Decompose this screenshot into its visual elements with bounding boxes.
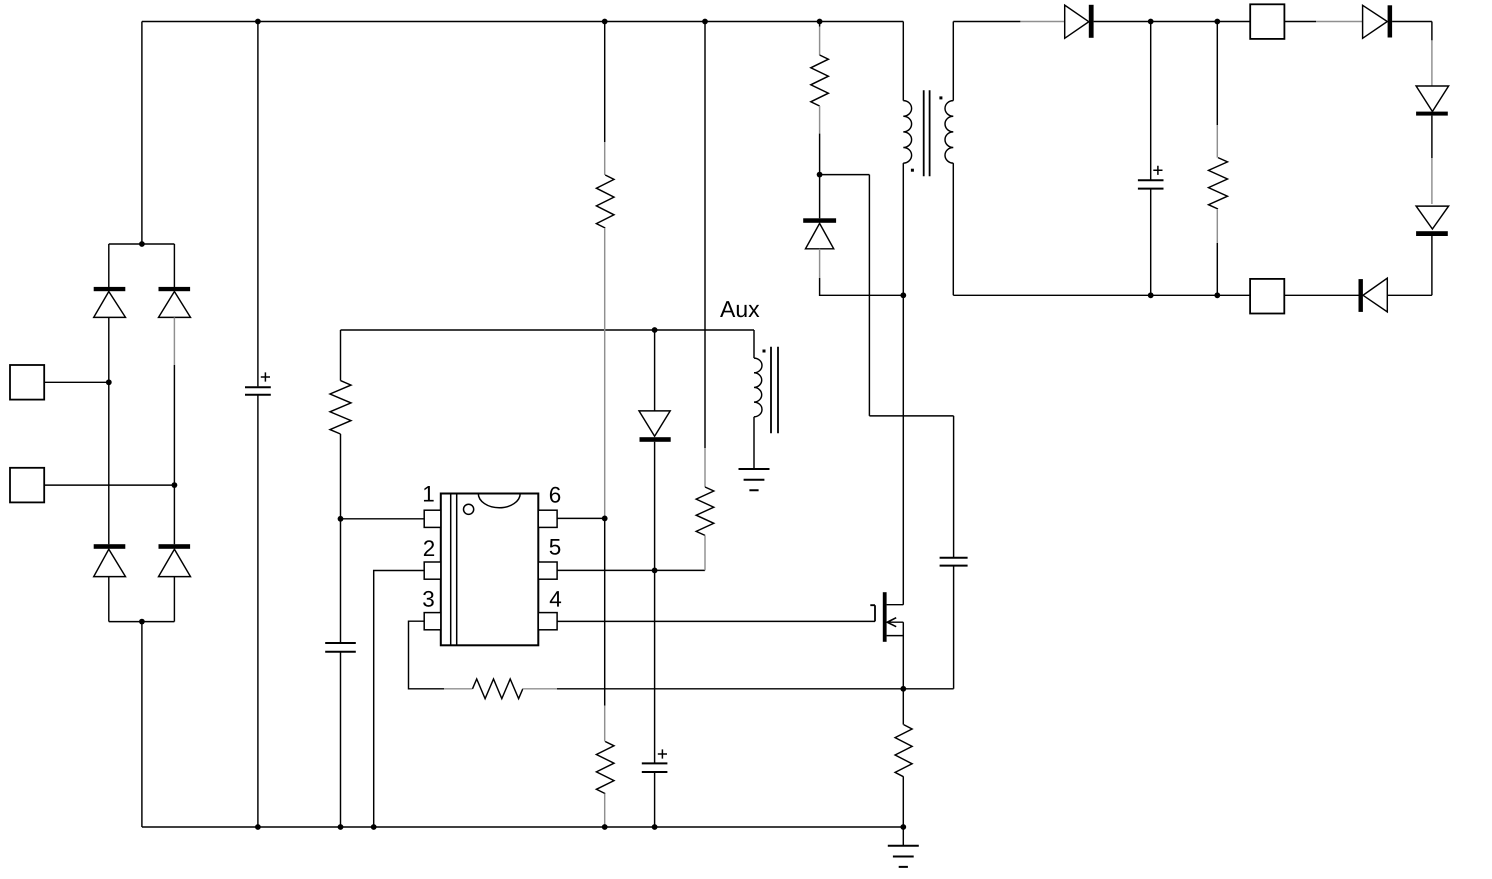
pin number 1 xyxy=(424,486,434,501)
wire R3 to MOSFET source node xyxy=(557,688,903,690)
wire C5 bottom lead xyxy=(1150,189,1152,296)
wire R6 from top rail xyxy=(704,22,706,449)
U1 pin 5 box xyxy=(538,562,557,579)
wire clamp link to snubber cap xyxy=(820,175,954,416)
wire R8 top lead xyxy=(902,689,904,725)
wire R3 left lead (gray) xyxy=(444,688,473,690)
wire R9 top lead xyxy=(1216,22,1218,126)
wire D5 cathode to output node xyxy=(1094,21,1251,23)
resistor R7 (clamp) xyxy=(811,55,829,106)
wire IC pin2 to ground rail xyxy=(374,571,425,828)
op-amp U1 body (controller IC) xyxy=(441,494,539,646)
wire IC pin1 connection xyxy=(341,518,425,520)
wire Aux feedback horizontal xyxy=(341,329,755,331)
wire C3 bottom lead xyxy=(654,772,656,827)
node R5 bottom rail junction xyxy=(602,824,608,830)
diode D7 (clamp) xyxy=(803,218,836,249)
wire D8 cathode to right column xyxy=(1392,22,1432,41)
node output resistor bottom junction xyxy=(1214,292,1220,298)
diode D9 xyxy=(1416,86,1449,116)
wire IC pin4 to Q1 gate xyxy=(557,620,875,622)
node clamp junction xyxy=(817,172,823,178)
diode D4 xyxy=(159,544,191,576)
Q1 source arrow xyxy=(887,618,904,627)
wire D4 anode to bridge bottom xyxy=(173,577,175,622)
U1 pin 6 box xyxy=(538,510,557,527)
diode D5 (output rectifier) xyxy=(1065,5,1094,39)
wire Q1 source down xyxy=(902,622,904,689)
capacitor C1 (bulk electrolytic) xyxy=(245,387,271,395)
transformer T1 secondary winding xyxy=(945,101,953,164)
U1 pin 2 box xyxy=(424,562,441,579)
label Aux xyxy=(720,301,759,317)
wire snubber cap top lead xyxy=(953,416,955,558)
wire R7 lower gray lead xyxy=(819,106,821,134)
wire IC pin3 down-left loop xyxy=(409,621,445,689)
wire IC pin5 connection xyxy=(557,569,705,571)
pin number 6 xyxy=(550,487,560,503)
node primary/drain/clamp junction xyxy=(900,292,906,298)
wire Aux winding top lead xyxy=(753,330,755,358)
wire D10 to bottom corner xyxy=(1387,236,1432,295)
inductor L1 (Aux winding) xyxy=(754,358,762,417)
wire R9 upper gray lead xyxy=(1216,125,1218,158)
Aux winding core xyxy=(771,347,778,434)
wire D9 to D10 xyxy=(1431,116,1433,158)
ground (Aux winding) xyxy=(739,469,770,490)
wire D2 cathode lead xyxy=(173,244,175,287)
node pin5 net junction xyxy=(652,568,658,574)
wire J2 to bridge node xyxy=(44,484,174,486)
diode D6 xyxy=(639,411,671,442)
wire D1 cathode lead xyxy=(108,244,110,287)
wire clamp node to D7 xyxy=(819,175,821,219)
node bridge bottom junction xyxy=(139,619,145,625)
node output cap top junction xyxy=(1148,19,1154,25)
wire bridge bottom to ground rail xyxy=(141,622,143,827)
wire bottom return rail xyxy=(142,826,903,828)
node pin6 junction xyxy=(602,516,608,522)
wire R6 lower gray lead xyxy=(704,535,706,570)
wire R6 upper gray lead xyxy=(704,448,706,487)
node R4 top rail junction xyxy=(602,19,608,25)
capacitor C2 xyxy=(325,643,356,652)
capacitor C1 + mark xyxy=(261,372,270,381)
wire R5 upper gray lead xyxy=(604,706,606,742)
capacitor C4 (snubber) xyxy=(940,558,968,566)
wire D5 anode lead (gray) xyxy=(1020,21,1064,23)
resistor R8 xyxy=(895,725,912,777)
wire R4 to pin6 node (gray) xyxy=(604,228,606,518)
resistor R4 xyxy=(596,175,614,228)
diode D8 xyxy=(1363,5,1393,38)
resistor R3 (horizontal) xyxy=(473,679,523,699)
primary phase dot xyxy=(911,169,914,172)
terminal J2 (AC neutral input) xyxy=(10,468,44,503)
ground (primary return) xyxy=(888,846,919,867)
wire C5 top lead xyxy=(1150,22,1152,181)
wire secondary top lead xyxy=(953,22,1020,101)
resistor R6 xyxy=(696,487,714,535)
terminal J1 (AC line input) xyxy=(10,365,44,400)
capacitor C3 + mark xyxy=(658,749,667,758)
wire R9 lower gray lead xyxy=(1216,209,1218,243)
transistor Q1 channel bar xyxy=(883,592,887,642)
U1 pin 3 box xyxy=(424,613,441,630)
wire D9 cathode lead (gray) xyxy=(1431,40,1433,86)
wire D8 anode lead (gray) xyxy=(1316,21,1363,23)
wire D6 cathode to pin5 net xyxy=(654,442,656,763)
capacitor C5 + mark xyxy=(1153,166,1162,175)
node pin1 junction xyxy=(338,516,344,522)
wire C1 top lead xyxy=(257,22,259,387)
node C3 bottom rail junction xyxy=(652,824,658,830)
wire snubber cap bottom lead xyxy=(903,566,953,689)
wire ground stub xyxy=(902,827,904,846)
node output cap bottom junction xyxy=(1148,292,1154,298)
wire top DC+ rail xyxy=(142,21,903,23)
wire C1 bottom lead xyxy=(257,395,259,827)
wire secondary bottom lead xyxy=(953,163,1250,295)
wire J1 to bridge node xyxy=(44,381,109,383)
wire R3 right lead (gray) xyxy=(523,688,557,690)
wire D7 anode gray lead xyxy=(819,249,821,278)
node Aux line junction xyxy=(652,327,658,333)
diode D10 xyxy=(1416,206,1449,236)
wire D11 to J4 xyxy=(1284,294,1358,296)
pin number 2 xyxy=(424,540,434,556)
pin number 4 xyxy=(550,591,561,606)
node A (AC line node) xyxy=(106,379,112,385)
wire D3 anode to bridge bottom xyxy=(108,577,110,622)
wire R5 lower gray lead xyxy=(604,794,606,827)
wire R4 upper gray lead xyxy=(604,142,606,175)
Q1 source lower tap xyxy=(887,635,904,637)
wire bridge top joiner xyxy=(109,22,175,245)
capacitor C5 (output) xyxy=(1138,180,1164,188)
wire C2 bottom lead xyxy=(340,652,342,827)
diode D3 xyxy=(94,544,126,576)
wire pin6 node down xyxy=(604,518,606,705)
Aux winding phase dot xyxy=(763,350,766,353)
wire Aux winding bottom lead xyxy=(753,417,755,469)
capacitor C3 xyxy=(642,763,668,772)
wire D6 anode lead xyxy=(654,330,656,411)
wire D2 anode to node B xyxy=(173,365,175,544)
wire R4 top lead xyxy=(604,22,606,143)
Q1 drain tap xyxy=(887,604,904,606)
transformer T1 core xyxy=(924,90,930,176)
node pin2 return rail junction xyxy=(371,824,377,830)
resistor R5 xyxy=(596,742,614,794)
wire R9 bottom lead xyxy=(1216,243,1218,295)
Q1 gate electrode xyxy=(870,605,875,621)
resistor R9 (load) xyxy=(1209,158,1228,209)
wire R7 to clamp node xyxy=(819,134,821,175)
node C2 bottom rail junction xyxy=(338,824,344,830)
wire bridge bottom joiner xyxy=(109,621,175,623)
diode D2 xyxy=(159,287,191,318)
terminal J3 (output +) xyxy=(1250,4,1284,39)
U1 pin 1 box xyxy=(424,510,441,527)
node ground rail junction xyxy=(900,824,906,830)
wire D10 lead (gray) xyxy=(1431,158,1433,204)
node source junction xyxy=(900,686,906,692)
wire J3 to D8 xyxy=(1284,21,1316,23)
U1 pin 4 box xyxy=(538,613,557,630)
node DC+ (bridge top junction) xyxy=(139,241,145,247)
transformer T1 primary winding xyxy=(903,101,911,164)
wire R7 top stub xyxy=(819,22,821,27)
node C1 bottom rail junction xyxy=(255,824,261,830)
secondary phase dot xyxy=(939,96,942,99)
node output resistor top junction xyxy=(1214,19,1220,25)
resistor R2 xyxy=(330,381,351,434)
wire primary top lead xyxy=(902,22,904,101)
pin number 3 xyxy=(423,591,434,607)
wire IC pin6 connection xyxy=(557,517,605,519)
node B (AC neutral node) xyxy=(172,482,178,488)
terminal J4 (output -) xyxy=(1250,279,1284,314)
node snubber top rail junction xyxy=(817,19,823,25)
diode D1 xyxy=(94,287,126,318)
wire primary bottom to drain xyxy=(902,163,904,605)
wire D2 anode lead (gray) xyxy=(173,317,175,365)
pin number 5 xyxy=(550,539,561,555)
diode D11 (return) xyxy=(1359,278,1388,312)
wire D1 anode to node A xyxy=(108,317,110,544)
node R6 top rail junction xyxy=(702,19,708,25)
wire D7 to drain node xyxy=(820,278,904,295)
wire R8 bottom lead xyxy=(902,777,904,827)
wire R7 upper gray lead xyxy=(819,27,821,56)
node C1 top rail junction xyxy=(255,19,261,25)
wire R2 top lead xyxy=(340,330,342,381)
wire R2 bottom to pin1 node xyxy=(340,434,342,643)
